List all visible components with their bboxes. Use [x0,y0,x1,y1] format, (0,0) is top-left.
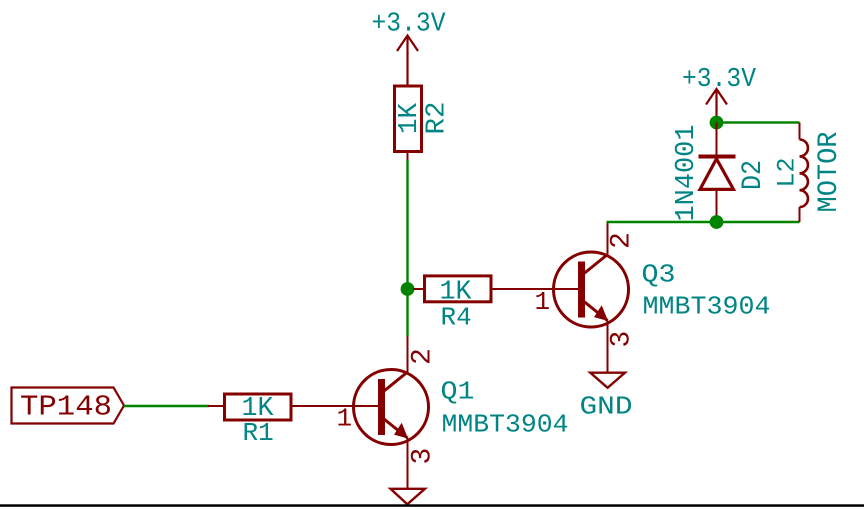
junction node (bottom right) [710,215,724,229]
wire R2 to junction [406,160,408,289]
svg-text:3: 3 [607,331,638,348]
svg-text:2: 2 [607,232,638,249]
diode D2 1N4001 [672,123,769,223]
svg-text:MOTOR: MOTOR [814,131,845,212]
svg-text:1N4001: 1N4001 [672,125,702,222]
wire Q3 collector to motor bottom [607,221,800,223]
svg-text:R4: R4 [441,303,472,333]
sheet border line [0,504,864,507]
power +3.3V (right, feeds D2/L2) [682,65,757,122]
ground (below Q3) [580,373,633,422]
svg-text:1: 1 [535,287,551,317]
svg-text:D2: D2 [738,160,769,190]
resistor R4 [413,276,581,333]
svg-text:MMBT3904: MMBT3904 [442,410,569,440]
svg-text:R1: R1 [243,418,274,448]
svg-text:GND: GND [580,392,633,422]
svg-text:+3.3V: +3.3V [372,10,447,40]
junction node [401,282,415,296]
wire junction to Q1 collector [406,289,408,336]
svg-text:L2: L2 [773,157,802,187]
svg-text:Q3: Q3 [642,260,676,290]
svg-text:3: 3 [408,448,439,465]
transistor Q3 MMBT3904 [535,223,771,373]
resistor R1 [208,394,381,448]
power +3.3V (top, feeds R2) [372,10,447,87]
transistor Q1 MMBT3904 [337,336,569,489]
global label TP148 [12,388,125,424]
svg-text:MMBT3904: MMBT3904 [643,292,771,322]
inductor L2 MOTOR [773,123,846,223]
svg-text:2: 2 [408,348,439,365]
svg-text:1: 1 [337,404,353,434]
svg-text:Q1: Q1 [441,377,475,407]
wire +3.3V to motor top [717,121,800,123]
svg-text:TP148: TP148 [20,391,112,424]
resistor R2 [395,86,453,161]
ground (below Q1) [391,489,425,505]
wire TP148 to R1 [124,405,209,407]
svg-text:1K: 1K [395,102,425,134]
svg-text:+3.3V: +3.3V [682,65,757,95]
svg-text:R2: R2 [423,102,453,135]
junction node (top right) [710,116,724,130]
